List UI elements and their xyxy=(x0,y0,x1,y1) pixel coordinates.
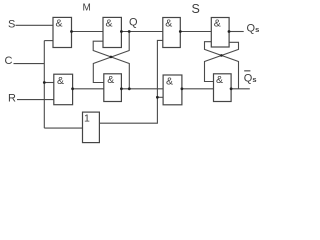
AND gate G7b slave latch bottom xyxy=(214,74,232,102)
svg-text:S: S xyxy=(8,19,15,31)
svg-text:M: M xyxy=(83,2,91,13)
AND gate G2b master latch bottom xyxy=(104,74,122,102)
wire C to G3 pin 1 xyxy=(44,82,54,84)
svg-text:&: & xyxy=(106,17,113,29)
junction G5 output xyxy=(179,30,182,33)
wire slave feedback Qsbar to G7 pin 2 xyxy=(205,42,239,89)
junction master cross point xyxy=(110,56,113,59)
svg-text:&: & xyxy=(107,74,114,86)
svg-text:&: & xyxy=(57,75,64,87)
overline of Qs-bar xyxy=(244,70,250,71)
wire inverter output to slave clock xyxy=(99,40,162,123)
AND gate G5 slave set gate xyxy=(163,18,181,48)
wire G7b output to Qsbar xyxy=(231,88,250,90)
AND gate G3 master reset gate xyxy=(54,74,73,105)
wire G1 output to G2 input xyxy=(72,31,104,33)
wire S input xyxy=(16,24,54,26)
wire G2b output node Qbar to G6 input xyxy=(121,88,163,90)
wire G3 output to G2b pin 2 xyxy=(73,88,104,90)
junction node Q feedback tap xyxy=(128,30,131,33)
wire G7 output to Qs xyxy=(229,31,244,33)
svg-text:&: & xyxy=(165,18,172,30)
wire G6 output to G7b pin 2 xyxy=(182,88,214,90)
junction G1 output xyxy=(70,30,73,33)
AND gate G1 master set gate xyxy=(53,17,72,47)
wire master feedback Q to G2b pin 1 xyxy=(93,32,129,83)
svg-text:&: & xyxy=(216,74,223,86)
svg-text:S: S xyxy=(192,2,200,16)
AND gate G6 slave reset gate xyxy=(163,75,182,105)
inverter U1 xyxy=(83,112,100,143)
junction G2b output xyxy=(120,87,123,90)
junction G7b output node Qsbar xyxy=(230,87,233,90)
wire G5 output to G7 input xyxy=(180,31,211,33)
junction G3 output xyxy=(71,87,74,90)
AND gate G7 slave latch top xyxy=(211,18,229,48)
svg-text:Qs: Qs xyxy=(244,72,257,84)
wire C input xyxy=(14,63,45,65)
wire G2 output node Q to G5 input xyxy=(121,31,162,33)
svg-text:R: R xyxy=(8,92,16,104)
wire slave feedback Qs to G7b pin 1 xyxy=(205,42,239,81)
wire C to G1 pin 2 xyxy=(44,40,53,42)
wire C clock vertical xyxy=(43,41,45,129)
wire C to inverter input xyxy=(44,127,82,129)
wire R input xyxy=(17,99,54,101)
junction G6 output xyxy=(181,87,184,90)
junction C clock tap xyxy=(43,81,46,84)
svg-text:1: 1 xyxy=(84,113,90,125)
junction G2 output xyxy=(120,30,123,33)
svg-text:&: & xyxy=(166,75,173,87)
junction slave cross point xyxy=(220,54,223,57)
svg-text:Q: Q xyxy=(129,16,138,28)
wire slave clock to G6 pin 2 xyxy=(157,96,163,98)
svg-text:&: & xyxy=(56,17,63,29)
svg-text:Qs: Qs xyxy=(247,22,260,34)
wire master feedback Qbar to G2 pin 2 xyxy=(93,41,129,89)
junction G7 output node Qs xyxy=(228,30,231,33)
junction node Qbar feedback tap xyxy=(128,87,131,90)
junction slave clock tap xyxy=(156,96,159,99)
AND gate G2 master latch top xyxy=(103,17,121,47)
svg-text:&: & xyxy=(214,18,221,30)
svg-text:C: C xyxy=(5,55,13,67)
